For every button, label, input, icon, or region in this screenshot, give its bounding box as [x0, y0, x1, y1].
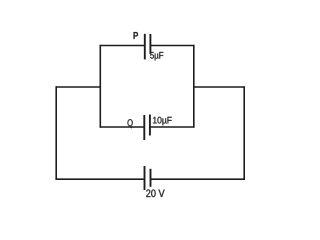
capacitor Q plate left	[143, 115, 145, 140]
value label 5µF	[150, 52, 163, 60]
battery plate right (short)	[150, 169, 152, 187]
wire inner left vertical	[99, 45, 101, 128]
capacitor Q plate right	[149, 115, 151, 136]
label P	[134, 32, 139, 39]
value label 10µF	[153, 117, 172, 126]
capacitor P plate left	[144, 34, 146, 60]
wire top branch right segment	[151, 45, 194, 47]
wire inner right vertical	[193, 45, 195, 128]
value label 20 V	[146, 190, 164, 198]
wire top branch left segment	[100, 45, 144, 47]
battery plate left (long)	[144, 166, 146, 190]
label Q	[128, 119, 133, 128]
wire right connector	[194, 86, 244, 88]
wire left connector	[56, 86, 100, 88]
wire middle branch left segment	[100, 126, 144, 128]
capacitor P plate right	[149, 34, 151, 54]
wire outer right vertical	[243, 86, 245, 180]
wire outer left vertical	[55, 86, 57, 180]
wire bottom left segment	[56, 178, 144, 180]
wire bottom right segment	[151, 178, 244, 180]
wire middle branch right segment	[150, 126, 194, 128]
